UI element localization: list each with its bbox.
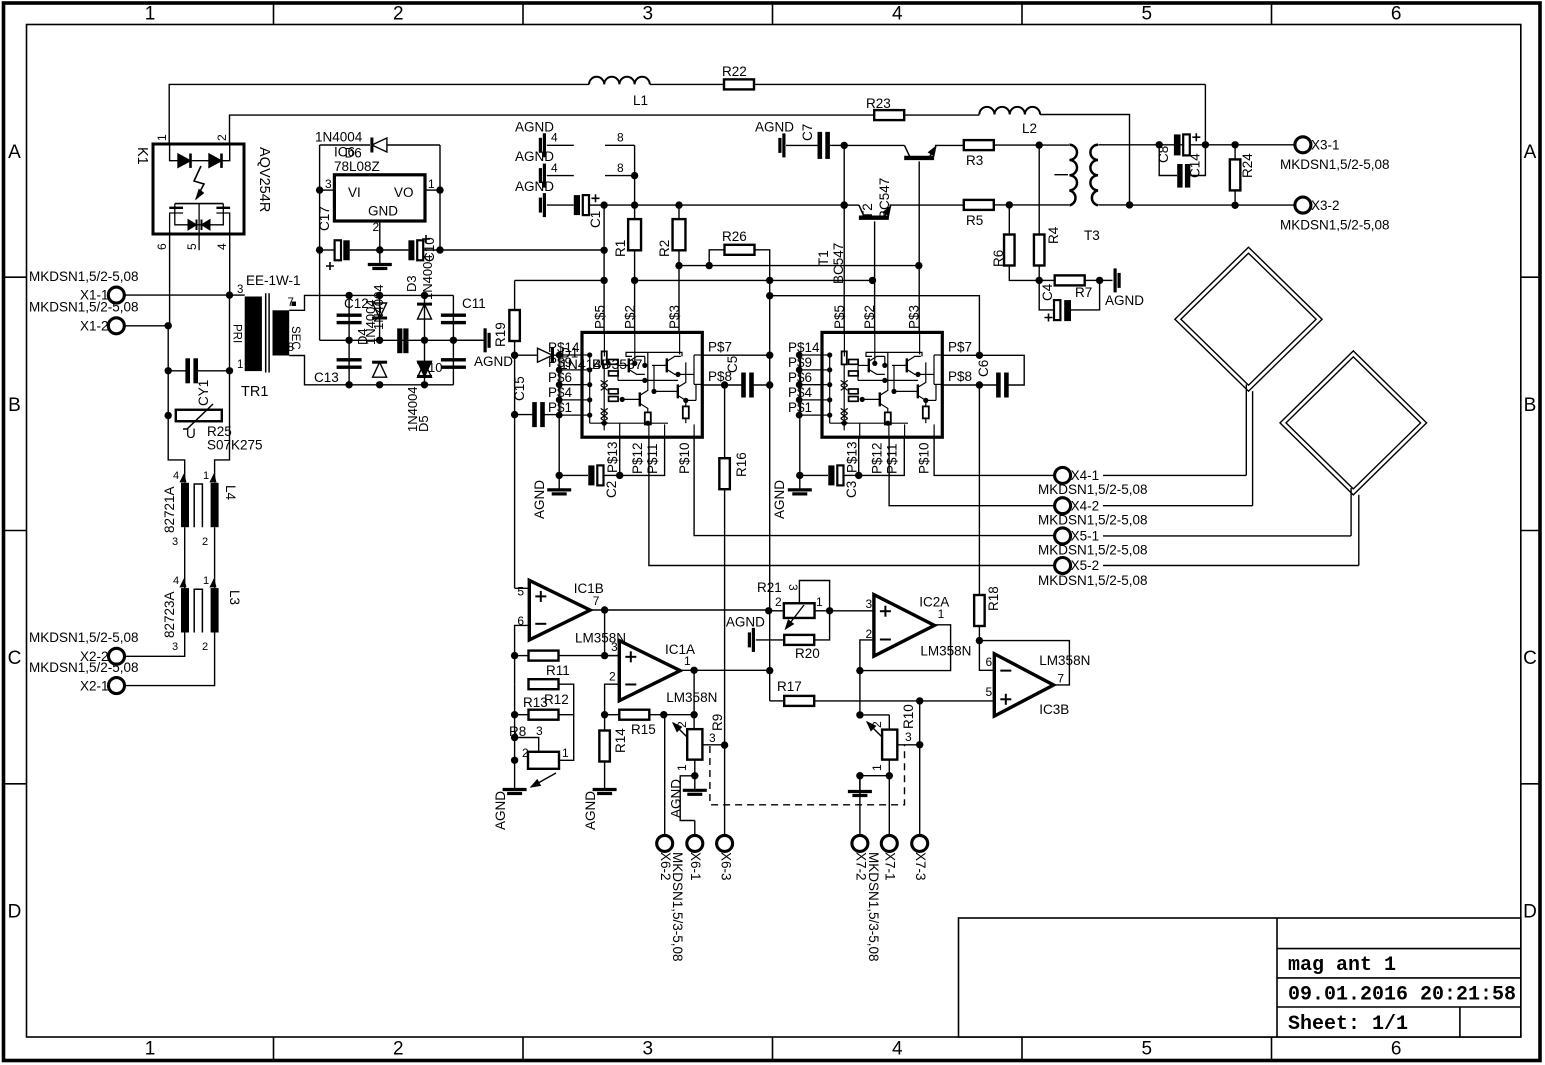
svg-text:X4-2: X4-2 xyxy=(1071,498,1100,513)
label IC6 pin 1 xyxy=(428,177,435,191)
label C2 xyxy=(604,481,619,498)
svg-text:R5: R5 xyxy=(966,213,983,228)
label C5 xyxy=(725,356,740,373)
label 1N4004 for D6 xyxy=(315,130,363,145)
label PRI xyxy=(231,324,243,343)
svg-text:3: 3 xyxy=(905,730,912,744)
resistor R19 xyxy=(509,310,519,341)
wire IC1A pin2 xyxy=(601,684,619,718)
svg-text:1: 1 xyxy=(684,654,691,668)
optocoupler relay K1 AQV254R body xyxy=(153,144,244,250)
svg-text:L1: L1 xyxy=(633,93,648,108)
svg-text:L2: L2 xyxy=(1022,121,1037,136)
label X5-1 part value xyxy=(1038,543,1148,558)
wire module1 P$11 down xyxy=(620,437,665,475)
wire R9 pin1 to X6-1 xyxy=(680,776,695,821)
label R10 pin3 xyxy=(905,730,912,744)
capacitor CY1 xyxy=(168,358,229,383)
wire D1 node down to C15 xyxy=(511,355,518,418)
svg-text:X7-3: X7-3 xyxy=(913,852,928,881)
svg-text:P$14: P$14 xyxy=(788,340,820,355)
label module1 pin P$11 xyxy=(645,443,660,474)
label R16 xyxy=(734,452,749,477)
svg-text:R26: R26 xyxy=(722,229,747,244)
label module1 pin P$9 xyxy=(548,355,572,370)
label C3 xyxy=(844,481,859,498)
svg-text:MKDSN1,5/3-5,08: MKDSN1,5/3-5,08 xyxy=(670,852,685,962)
label R8 xyxy=(509,724,526,739)
wire bridge mid rail xyxy=(320,339,484,341)
wire T1 emitter to R3 xyxy=(935,144,964,146)
op-amp IC1B xyxy=(529,580,590,640)
wire K1 pin6 down to X1-2 node xyxy=(169,234,171,326)
svg-text:4: 4 xyxy=(892,1039,903,1060)
label T2 xyxy=(860,203,875,219)
wire bridge right column xyxy=(450,295,457,384)
label 1N4004 at D3 xyxy=(420,254,435,300)
wire T3 secondary top to X3 net xyxy=(1098,144,1159,146)
label IC3B pin7 xyxy=(1057,671,1064,685)
label module2 pin P$11 xyxy=(885,443,900,474)
capacitor C5 xyxy=(702,373,773,398)
svg-text:1: 1 xyxy=(145,4,156,25)
svg-text:mag ant 1: mag ant 1 xyxy=(1288,954,1396,977)
svg-text:P$3: P$3 xyxy=(667,305,682,329)
svg-text:4: 4 xyxy=(551,161,558,175)
label module2 pin P$1 xyxy=(788,400,812,415)
label LM358N at IC1B xyxy=(575,630,626,645)
wire IC6 pin2 gnd xyxy=(376,221,383,254)
svg-text:BD3537: BD3537 xyxy=(592,356,643,372)
label C15 xyxy=(512,376,527,401)
label X2-1 part value xyxy=(29,660,139,675)
wire IC2A pin3 xyxy=(830,610,874,612)
label R21 pin1 xyxy=(816,595,823,609)
label EE-1W-1 value xyxy=(246,273,301,288)
svg-text:C15: C15 xyxy=(512,376,527,401)
label R8 pin1 xyxy=(562,746,569,760)
svg-text:82723A: 82723A xyxy=(162,591,177,638)
svg-text:3: 3 xyxy=(172,641,178,653)
wire IC1A out down xyxy=(690,670,697,718)
wire R19 bottom to D1 node xyxy=(511,341,518,359)
label R5 xyxy=(966,213,983,228)
svg-text:AGND: AGND xyxy=(515,149,554,164)
label AGND at R20 xyxy=(726,614,765,629)
label module2 pin P$5 xyxy=(832,305,847,329)
wire IC1B pin5 xyxy=(515,587,530,589)
label module2 pin P$12 xyxy=(870,442,885,474)
label R26 xyxy=(722,229,747,244)
trimmer R8 xyxy=(515,738,559,788)
label TR1 pin 1 xyxy=(237,359,243,371)
svg-text:MKDSN1,5/2-5,08: MKDSN1,5/2-5,08 xyxy=(1038,543,1148,558)
svg-text:C11: C11 xyxy=(462,296,486,311)
svg-text:P$13: P$13 xyxy=(845,441,860,473)
label LM358N at IC1A xyxy=(666,690,717,705)
wire VI column xyxy=(316,145,323,340)
svg-text:R6: R6 xyxy=(991,250,1006,267)
label R12 xyxy=(544,692,569,707)
svg-text:3: 3 xyxy=(237,284,243,296)
label R1 xyxy=(613,240,628,257)
label IC2A pin3 xyxy=(866,597,873,611)
resistor R18 xyxy=(974,595,985,644)
svg-text:R9: R9 xyxy=(710,714,725,731)
svg-text:C7: C7 xyxy=(800,124,815,141)
svg-text:1: 1 xyxy=(237,359,243,371)
svg-text:C: C xyxy=(1523,648,1537,669)
svg-text:P$9: P$9 xyxy=(548,355,572,370)
ground AGND at R14 xyxy=(593,775,617,794)
wire C7 node to T1 base xyxy=(841,142,905,149)
inductor L4 (current-compensated choke) xyxy=(181,483,219,527)
label module1 pin P$5 xyxy=(593,305,608,329)
label module1 pin P$1 xyxy=(548,400,572,415)
svg-text:R2: R2 xyxy=(657,240,672,257)
label LM358N at IC3B xyxy=(1039,653,1090,668)
label CY1 xyxy=(196,380,211,406)
wire L4 pin2 to L3 pin1 xyxy=(214,527,216,588)
resistor R14 xyxy=(599,715,610,775)
inductor L3 (current-compensated choke) xyxy=(181,588,219,632)
label R18 xyxy=(986,586,1001,611)
trimmer R9 xyxy=(673,715,725,780)
label module1 pin P$4 xyxy=(548,385,573,400)
svg-text:S07K275: S07K275 xyxy=(207,438,263,453)
svg-text:1: 1 xyxy=(203,575,209,587)
svg-text:C6: C6 xyxy=(976,360,991,377)
transformer T3 xyxy=(1069,145,1098,205)
ground AGND at C1 xyxy=(540,193,573,217)
label R9 xyxy=(710,714,725,731)
svg-text:AGND: AGND xyxy=(755,120,794,135)
label K1 pin 4 xyxy=(215,243,229,250)
label C8 xyxy=(1156,146,1171,163)
connector X3-1 xyxy=(1295,137,1340,153)
label L1 xyxy=(633,93,648,108)
capacitor C9 series mid xyxy=(397,328,408,353)
wire X1-2 node down to CY1 xyxy=(165,326,172,375)
label module1 pin P$10 xyxy=(677,442,692,474)
label R15 xyxy=(631,722,656,737)
svg-text:2: 2 xyxy=(522,746,529,760)
wire P$8 node down to R18 xyxy=(978,385,980,595)
svg-text:VI: VI xyxy=(348,185,361,200)
label C12 xyxy=(344,296,369,311)
label AGND stub3 xyxy=(515,179,554,194)
inductor L2 xyxy=(979,107,1040,115)
svg-text:C3: C3 xyxy=(844,481,859,498)
svg-text:R19: R19 xyxy=(493,322,508,347)
label X2-2 part value xyxy=(29,630,139,645)
label X7-1 xyxy=(883,852,898,881)
label IC1A pin3 xyxy=(611,640,618,654)
label C1 xyxy=(588,211,603,228)
label module1 pin P$3 xyxy=(667,305,682,329)
svg-text:L4: L4 xyxy=(223,485,238,501)
svg-text:09.01.2016 20:21:58: 09.01.2016 20:21:58 xyxy=(1288,984,1516,1007)
frame column tick lines xyxy=(274,3,1272,1060)
connector X6-3 xyxy=(717,745,733,851)
label 1N4004 at D5 xyxy=(405,386,420,432)
svg-text:T1: T1 xyxy=(816,250,831,266)
ground AGND stub2 symbol xyxy=(540,164,573,188)
label module2 pin P$7 xyxy=(948,340,972,355)
svg-text:R14: R14 xyxy=(613,728,628,753)
capacitor C12 xyxy=(337,295,362,340)
trimmer R10 xyxy=(856,715,923,780)
svg-text:AGND: AGND xyxy=(515,179,554,194)
capacitor C1 (electrolytic) xyxy=(574,194,604,215)
label module2 pin P$8 xyxy=(948,369,972,384)
label R25 xyxy=(207,424,232,439)
loop antenna L5 (diamond) xyxy=(1175,247,1322,506)
svg-text:X5-2: X5-2 xyxy=(1071,558,1100,573)
mechanical coupling dashed R9-R10 xyxy=(710,745,905,805)
ground AGND at R7 xyxy=(1100,268,1120,292)
svg-text:AGND: AGND xyxy=(532,480,547,519)
wire IC1A pin3 xyxy=(605,655,620,657)
svg-text:C: C xyxy=(8,648,22,669)
svg-text:3: 3 xyxy=(642,4,653,25)
label X3-2 part value xyxy=(1280,218,1390,233)
label D5 xyxy=(416,415,431,432)
svg-text:X3-1: X3-1 xyxy=(1311,137,1340,152)
label R23 xyxy=(866,96,891,111)
connector X6-2 xyxy=(657,715,673,852)
junction dots bridge bottom xyxy=(345,381,428,388)
ground AGND at module1 bus xyxy=(547,475,571,494)
wire IC6 pin3 xyxy=(320,189,335,191)
label C13 xyxy=(314,370,339,385)
label X7-3 xyxy=(913,852,928,881)
label X6-1 xyxy=(688,852,703,881)
svg-text:82721A: 82721A xyxy=(162,486,177,533)
wire K1 pin4 down to X1-1 node xyxy=(229,234,231,295)
label TR1 pin 7 xyxy=(288,297,297,309)
wire module2 P$7 junction xyxy=(942,352,983,359)
svg-text:AGND: AGND xyxy=(515,120,554,135)
wire module1 left bus xyxy=(556,355,563,479)
diode D6 1N4004 xyxy=(320,138,440,153)
connector X1-2 xyxy=(80,318,172,334)
wire module1 P$12 to X5-2 xyxy=(649,437,1055,565)
label BC547 at T2 xyxy=(877,178,892,219)
svg-text:A: A xyxy=(1524,142,1537,163)
label R9 pin1 xyxy=(675,764,689,771)
label 82721A value xyxy=(162,486,177,533)
svg-text:GND: GND xyxy=(368,204,398,219)
label L4 pin 4 xyxy=(173,470,186,482)
label K1 pin 1 xyxy=(155,134,169,141)
label module2 pin P$6 xyxy=(788,370,812,385)
varistor R25 xyxy=(176,404,222,429)
wire module2 P$12 to X4-2 xyxy=(889,437,1054,506)
capacitor C15 xyxy=(515,402,560,427)
svg-text:MKDSN1,5/2-5,08: MKDSN1,5/2-5,08 xyxy=(29,660,139,675)
label AGND at C7 xyxy=(755,120,794,135)
svg-text:4: 4 xyxy=(173,470,179,482)
svg-text:MKDSN1,5/3-5,08: MKDSN1,5/3-5,08 xyxy=(866,852,881,962)
svg-text:1: 1 xyxy=(675,764,689,771)
svg-text:R16: R16 xyxy=(734,452,749,477)
svg-text:P$1: P$1 xyxy=(548,400,572,415)
op-amp IC1A xyxy=(619,641,680,701)
svg-text:IC3B: IC3B xyxy=(1039,702,1069,717)
loop antenna L6 (diamond) xyxy=(1280,351,1427,566)
ground AGND at R10 xyxy=(848,777,872,796)
wire IC6 pin1 to VO column xyxy=(425,145,444,254)
label IC3B pin6 xyxy=(986,655,993,669)
title block text: sheet xyxy=(1288,1013,1408,1036)
svg-text:MKDSN1,5/2-5,08: MKDSN1,5/2-5,08 xyxy=(1280,218,1390,233)
wire +8V feed east xyxy=(440,247,608,254)
wire R10 wiper column up xyxy=(919,701,921,745)
svg-text:2: 2 xyxy=(202,641,208,653)
ground AGND at R9 xyxy=(683,776,707,795)
svg-text:P$12: P$12 xyxy=(870,442,885,474)
resistor R16 xyxy=(719,385,730,749)
wire module2 P$5 column xyxy=(841,145,848,332)
label T1 xyxy=(816,250,831,266)
wire module1 P$13 down xyxy=(616,437,623,479)
svg-text:PRI: PRI xyxy=(231,324,243,343)
svg-text:LM358N: LM358N xyxy=(920,644,971,659)
svg-text:R1: R1 xyxy=(613,240,628,257)
wire second rail from K1 pin2 to R23 xyxy=(230,115,874,144)
label R19 xyxy=(493,322,508,347)
label module2 pin P$3 xyxy=(907,305,922,329)
svg-text:1: 1 xyxy=(816,595,823,609)
wire module2 P$8 xyxy=(942,384,979,386)
transistor T1 BC547 xyxy=(904,145,936,158)
svg-text:C14: C14 xyxy=(1188,153,1203,178)
resistor R7 xyxy=(1039,275,1103,285)
wire pin8 stub a xyxy=(605,145,638,179)
diode D4 1N4004 xyxy=(372,295,387,377)
resistor R2 xyxy=(673,205,686,332)
wire module2 P$2 column (T2 collector) xyxy=(874,221,876,332)
label L4 pin 3 xyxy=(172,536,178,548)
label X1-1 part value xyxy=(29,269,139,284)
label L4 pin 1 xyxy=(203,470,216,482)
svg-text:AGND: AGND xyxy=(474,354,513,369)
transformer TR1 windings xyxy=(245,293,290,372)
T3 mid tap xyxy=(1054,174,1068,176)
wire +8V rail xyxy=(600,201,848,208)
wire L4 pin3 to L3 pin4 xyxy=(184,527,186,588)
wire IC3B pin6 fb xyxy=(979,641,994,671)
label module1 pin P$12 xyxy=(630,442,645,474)
svg-text:2: 2 xyxy=(373,220,380,234)
label 1N4004 at D4 xyxy=(363,299,378,345)
svg-text:78L08Z: 78L08Z xyxy=(334,159,380,174)
label module2 pin P$2 xyxy=(862,305,877,329)
label X7-2 xyxy=(854,852,869,881)
label IC6 xyxy=(334,145,355,160)
svg-text:B: B xyxy=(1524,395,1537,416)
label module1 pin P$8 xyxy=(708,369,732,384)
svg-text:MKDSN1,5/2-5,08: MKDSN1,5/2-5,08 xyxy=(29,300,139,315)
svg-text:7: 7 xyxy=(593,594,600,608)
ground AGND at bridge mid xyxy=(453,328,489,352)
wire branch to module2 P$7 xyxy=(770,296,980,356)
label AGND stub1 xyxy=(515,120,554,135)
wire T3 secondary bottom xyxy=(1098,204,1129,206)
svg-text:P$6: P$6 xyxy=(548,370,572,385)
svg-text:2: 2 xyxy=(775,595,782,609)
label X6 part value xyxy=(670,852,685,962)
label X4-2 part value xyxy=(1038,512,1148,527)
label C10 xyxy=(422,237,437,262)
wire R10 bottom to AGND xyxy=(859,776,861,778)
svg-text:R4: R4 xyxy=(1046,226,1061,244)
svg-text:2: 2 xyxy=(393,1039,404,1060)
label R10 xyxy=(901,704,916,729)
title block text: drawing name xyxy=(1288,954,1396,977)
svg-text:R13: R13 xyxy=(523,695,548,710)
label L3 pin 2 xyxy=(202,641,208,653)
label D6 xyxy=(345,146,362,161)
wire module2 left bus xyxy=(796,355,803,479)
svg-text:T2: T2 xyxy=(860,203,875,219)
capacitor C11 top xyxy=(441,314,466,325)
wire module2 P$13 down xyxy=(855,437,862,479)
label IC3B pin5 xyxy=(986,685,993,699)
label R22 xyxy=(722,64,747,79)
wire L2 to X3-2 net drop xyxy=(1040,115,1133,209)
svg-text:X1-2: X1-2 xyxy=(80,318,109,333)
wire IC2A fb down to R10 xyxy=(856,671,863,719)
svg-text:4: 4 xyxy=(215,243,229,250)
label module2 pin P$9 xyxy=(788,355,812,370)
capacitor C13 xyxy=(337,340,362,385)
svg-text:C8: C8 xyxy=(1156,146,1171,163)
svg-text:K1: K1 xyxy=(134,147,150,165)
wire IC3B out feedback xyxy=(979,641,1069,685)
svg-text:1: 1 xyxy=(938,607,945,621)
wire CY1 node down to R25 xyxy=(165,371,230,419)
svg-text:P$11: P$11 xyxy=(885,443,900,474)
label R10 pin2 xyxy=(870,721,884,728)
svg-text:AGND: AGND xyxy=(772,480,787,519)
wire IC2A pin2 xyxy=(856,640,874,674)
label X5-2 part value xyxy=(1038,573,1148,588)
wire module1 P$5 column xyxy=(600,205,607,332)
svg-text:1: 1 xyxy=(203,470,209,482)
wire T2 emitter to R5 xyxy=(889,204,963,206)
svg-text:R21: R21 xyxy=(757,580,782,595)
label X1-2 part value xyxy=(29,300,139,315)
svg-text:R7: R7 xyxy=(1075,285,1092,300)
svg-text:C1: C1 xyxy=(588,211,603,228)
resistor R22 xyxy=(650,79,1205,89)
svg-text:B: B xyxy=(8,395,21,416)
svg-text:3: 3 xyxy=(786,584,800,591)
wire R8 to AGND xyxy=(514,760,516,775)
label R2 xyxy=(657,240,672,257)
wire IC1B out to R21 xyxy=(590,606,772,655)
resistor R11 xyxy=(515,651,620,661)
wire R21 wiper loop xyxy=(799,581,829,611)
svg-text:C4: C4 xyxy=(1040,283,1055,301)
svg-text:5: 5 xyxy=(517,585,524,599)
ground AGND at module2 bus xyxy=(788,475,812,494)
label module2 pin P$4 xyxy=(788,385,813,400)
connector X4-1 xyxy=(1055,467,1247,483)
svg-text:VO: VO xyxy=(394,185,414,200)
